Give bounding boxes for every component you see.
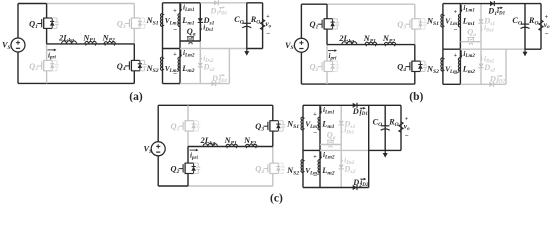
svg-text:−: − [454, 70, 458, 78]
svg-text:+: + [173, 52, 177, 58]
svg-text:−: − [313, 172, 317, 180]
svg-text:−: − [545, 30, 549, 38]
svg-text:(c): (c) [270, 193, 283, 205]
svg-text:+: + [173, 9, 177, 15]
svg-text:−: − [173, 70, 177, 78]
svg-text:−: − [454, 26, 458, 34]
svg-text:−: − [266, 29, 270, 37]
svg-text:−: − [173, 26, 177, 34]
svg-text:+: + [454, 9, 458, 15]
svg-text:+: + [313, 155, 317, 161]
svg-text:(b): (b) [409, 91, 423, 103]
svg-text:+: + [454, 53, 458, 59]
svg-text:−: − [313, 129, 317, 137]
svg-text:−: − [405, 132, 409, 140]
svg-text:+: + [313, 112, 317, 118]
svg-text:(a): (a) [129, 91, 143, 103]
